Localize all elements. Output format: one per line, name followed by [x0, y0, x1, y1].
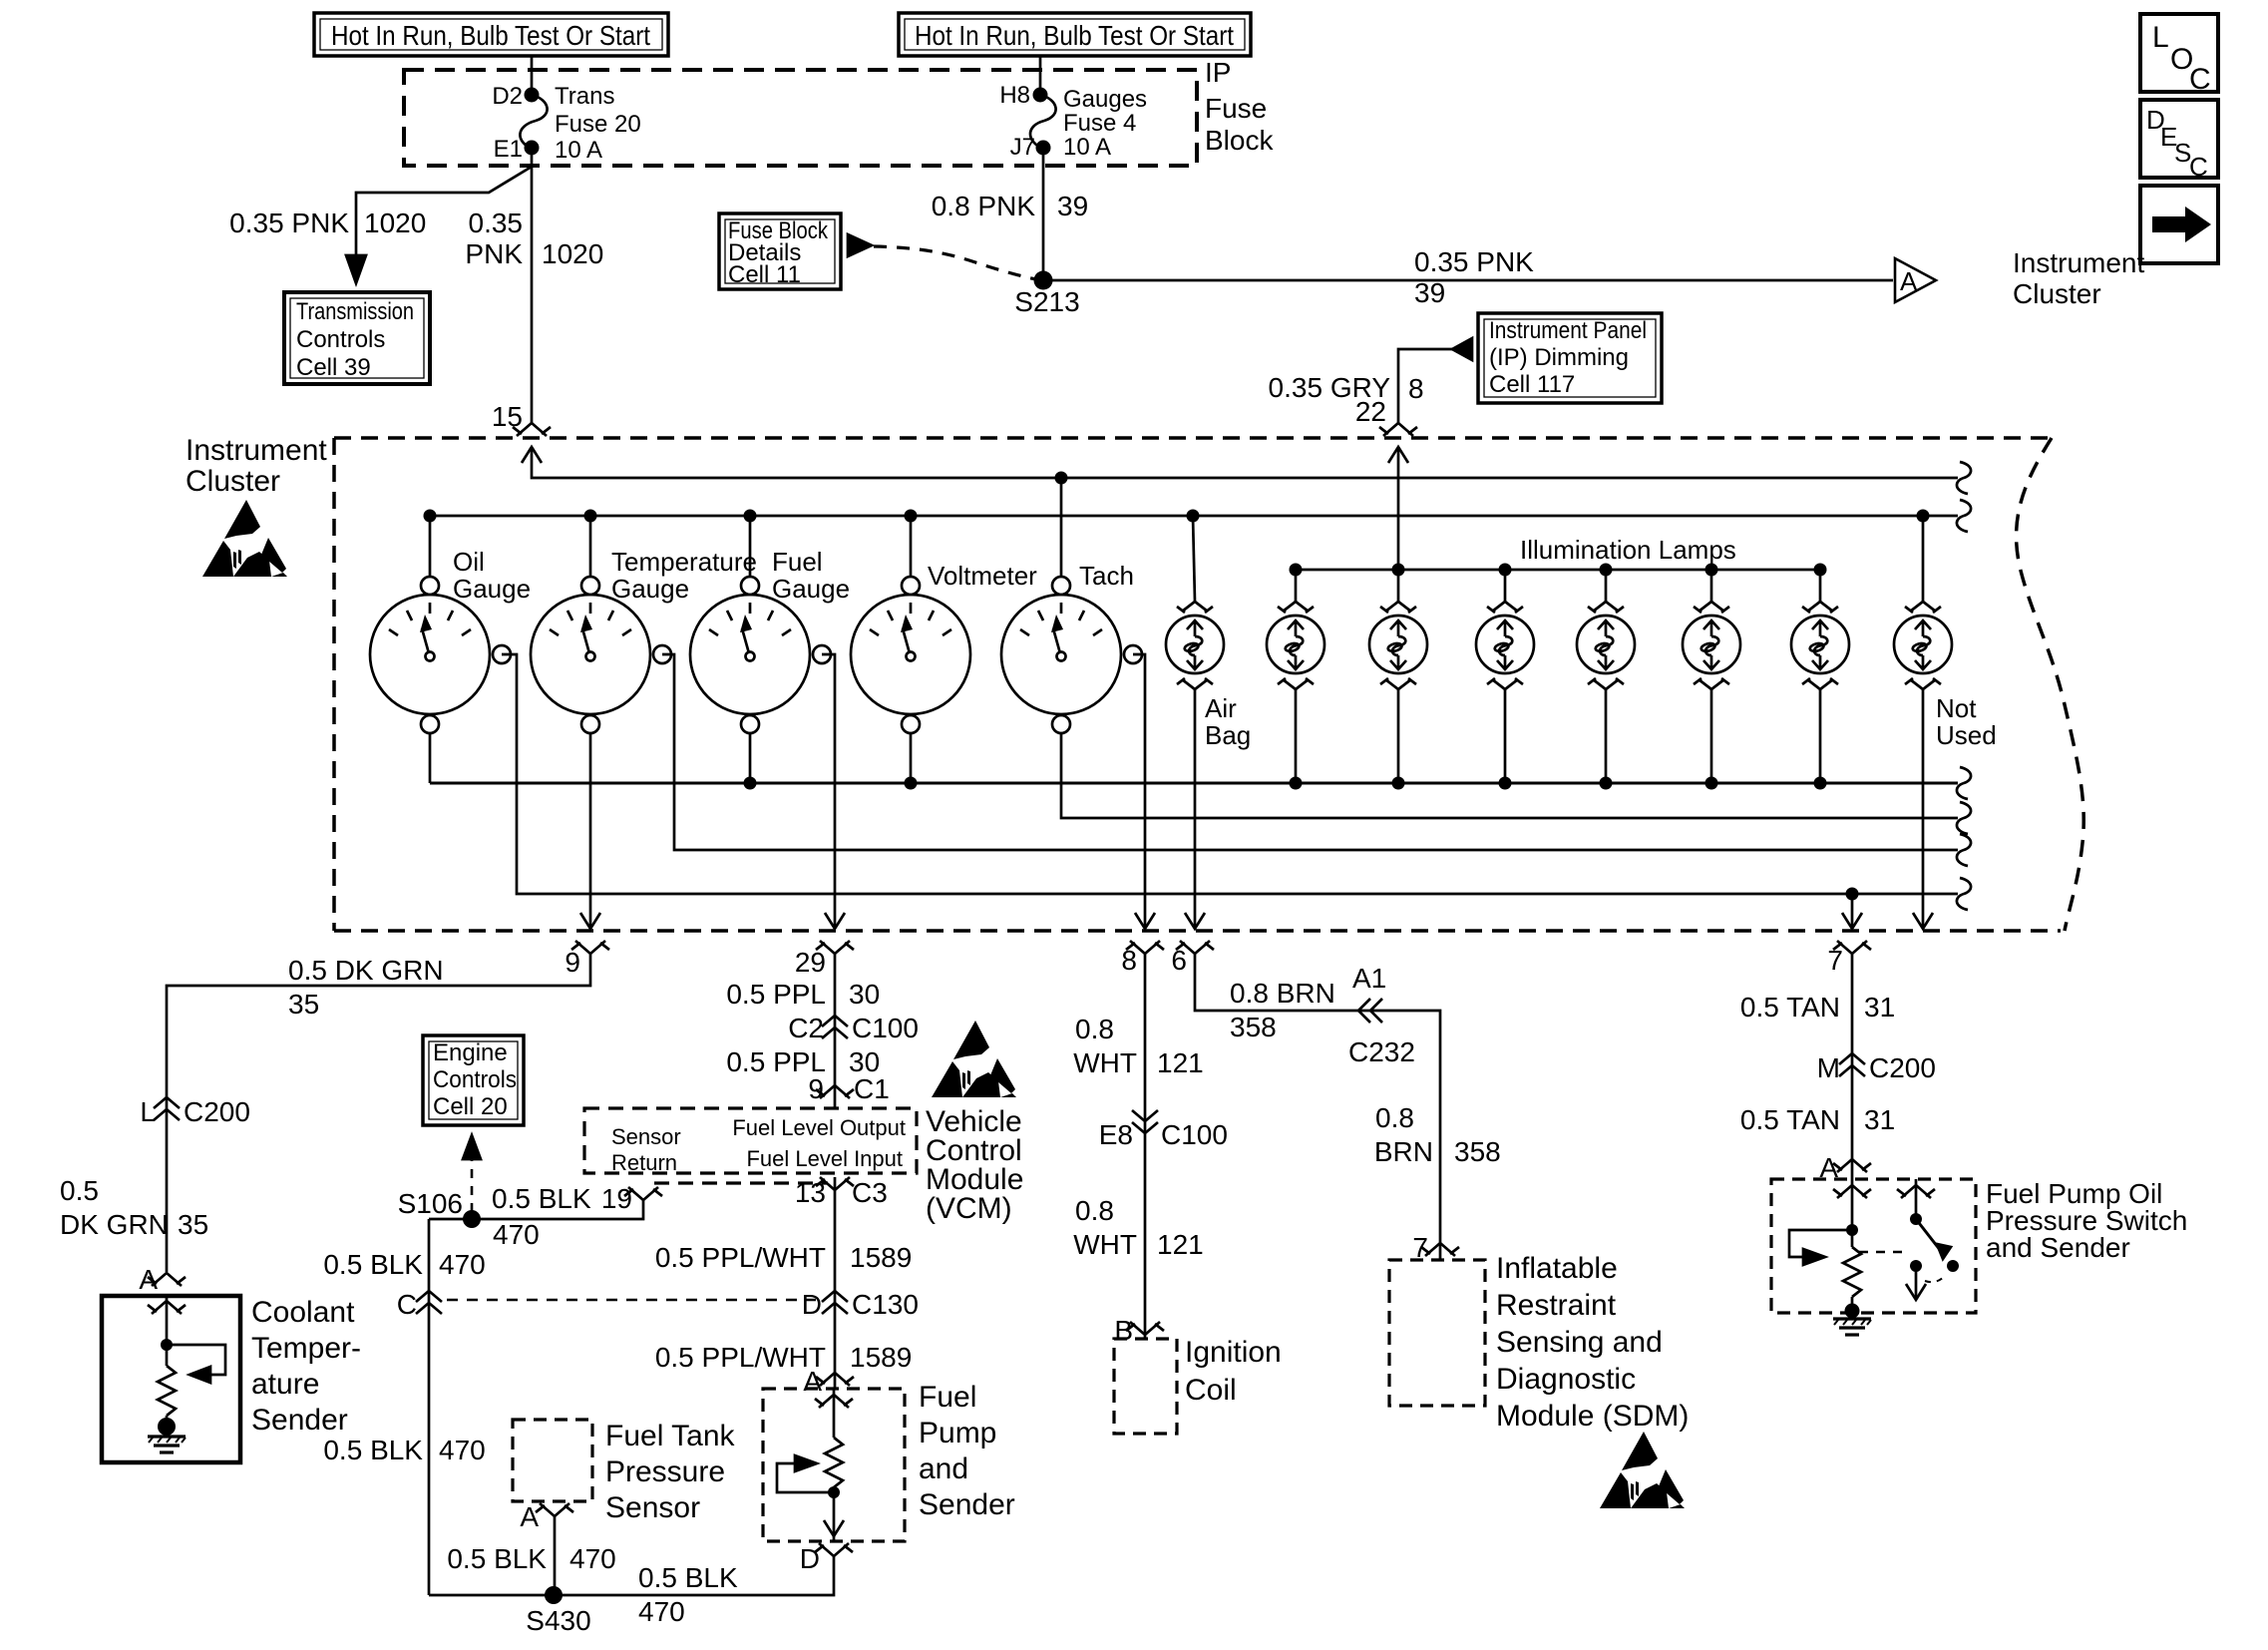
svg-text:0.5 DK GRN: 0.5 DK GRN	[288, 955, 444, 986]
svg-text:C100: C100	[1161, 1119, 1228, 1150]
svg-text:Sender: Sender	[919, 1488, 1015, 1521]
svg-text:29: 29	[795, 947, 826, 978]
arrowhead at border (9)	[580, 913, 600, 929]
wire: pin 15 feed bus (top)	[532, 447, 1958, 478]
svg-text:0.8 BRN: 0.8 BRN	[1230, 978, 1335, 1009]
wire: fuel pump D to S430	[429, 1556, 834, 1595]
svg-text:Temperature: Temperature	[611, 547, 757, 577]
label box: Hot In Run, Bulb Test Or Start (right)	[899, 13, 1251, 56]
label 0.5 PPL/WHT 1589 (lower)	[655, 1342, 912, 1373]
svg-text:Fuse 20: Fuse 20	[555, 111, 641, 138]
ESD symbol (bottom)	[1600, 1432, 1685, 1508]
svg-text:Cluster: Cluster	[186, 465, 280, 498]
svg-text:L: L	[140, 1096, 156, 1127]
svg-text:0.35: 0.35	[469, 207, 524, 238]
wire: box1 to fuse D2	[531, 56, 534, 90]
svg-text:0.5 BLK: 0.5 BLK	[323, 1249, 423, 1280]
splice S106	[398, 1188, 481, 1228]
splice S430	[526, 1586, 590, 1636]
wire: fuel gauge bottom to return bus	[749, 733, 752, 783]
oil gauge sender line (right terminal)	[502, 654, 1958, 894]
label 0.8 WHT 121 (lower)	[1073, 1195, 1203, 1260]
wire continuation squiggle (tach return)	[1957, 802, 1971, 834]
coolant sender internals	[148, 1296, 225, 1452]
label 0.5 TAN 31 (lower)	[1740, 1104, 1895, 1135]
label 0.8 BRN 358 (vertical)	[1374, 1102, 1501, 1167]
svg-text:H8: H8	[999, 82, 1030, 109]
arrowhead at border (29)	[825, 913, 845, 929]
svg-text:0.8: 0.8	[1075, 1014, 1114, 1044]
wire: box2 to fuse H8	[1039, 56, 1042, 90]
dashed pointer from S106 to Engine Controls	[471, 1157, 474, 1212]
svg-text:Transmission: Transmission	[296, 298, 414, 325]
fuse F20 (Trans Fuse 20 10 A)	[492, 83, 640, 164]
svg-text:1589: 1589	[850, 1242, 912, 1273]
svg-text:Fuse 4: Fuse 4	[1063, 110, 1136, 137]
svg-text:470: 470	[493, 1219, 540, 1250]
svg-text:39: 39	[1414, 277, 1445, 308]
wire: tank sensor to S430	[554, 1516, 557, 1595]
svg-text:Fuel: Fuel	[772, 547, 823, 577]
svg-text:PNK: PNK	[465, 238, 523, 269]
svg-text:C2: C2	[788, 1013, 824, 1043]
label 0.5 BLK 470 (lower)	[323, 1435, 485, 1465]
cluster title	[186, 434, 327, 498]
svg-text:BRN: BRN	[1374, 1136, 1433, 1167]
svg-text:Return: Return	[611, 1150, 677, 1175]
svg-text:Coolant: Coolant	[251, 1296, 355, 1329]
svg-text:Diagnostic: Diagnostic	[1496, 1363, 1636, 1396]
VCM dashed box	[584, 1108, 917, 1183]
node: voltmeter return	[905, 777, 918, 790]
node: oil gauge tap	[424, 510, 437, 523]
node: fuel gauge return	[744, 777, 757, 790]
svg-text:Tach: Tach	[1079, 561, 1134, 591]
svg-text:Fuel: Fuel	[919, 1381, 976, 1414]
svg-text:S106: S106	[398, 1188, 463, 1219]
svg-text:0.5 TAN: 0.5 TAN	[1740, 1104, 1840, 1135]
connector pin 7 (SDM)	[1412, 1232, 1459, 1263]
svg-text:31: 31	[1864, 992, 1895, 1023]
node: oil pressure branch	[1846, 888, 1859, 901]
DESC corner box	[2140, 100, 2218, 182]
label: Fuel Tank Pressure Sensor	[605, 1420, 736, 1524]
svg-text:and Sender: and Sender	[1986, 1232, 2130, 1263]
fuel pump and sender dashed box	[763, 1389, 905, 1541]
label 0.8 PNK 39	[932, 191, 1088, 221]
svg-text:Ignition: Ignition	[1185, 1336, 1282, 1369]
lamp return bus (bottom)	[430, 782, 1958, 785]
wire: fuel gauge right terminal to pin 29	[822, 654, 835, 929]
ESD symbol (VCM)	[932, 1021, 1016, 1097]
svg-text:Gauge: Gauge	[772, 574, 850, 604]
wire continuation squiggle (gauge bus)	[1957, 500, 1971, 532]
label: Vehicle Control Module (VCM)	[926, 1105, 1023, 1225]
svg-text:Sensor: Sensor	[605, 1491, 700, 1524]
connector pin 8 below cluster	[1121, 941, 1164, 976]
wire: S106 branch down to S430	[428, 1219, 431, 1595]
label: Coolant Temperature Sender	[251, 1296, 361, 1437]
svg-text:Fuel Level Input: Fuel Level Input	[746, 1146, 903, 1171]
svg-text:E8: E8	[1099, 1119, 1133, 1150]
svg-text:Block: Block	[1205, 125, 1274, 156]
connector pin A (fuel pump)	[803, 1366, 854, 1397]
label: Ignition Coil	[1185, 1336, 1282, 1407]
node: temp gauge tap	[584, 510, 597, 523]
IP Fuse Block dashed box	[404, 57, 1274, 166]
svg-text:Engine: Engine	[433, 1039, 508, 1066]
svg-text:C130: C130	[852, 1289, 919, 1320]
svg-text:470: 470	[569, 1543, 616, 1574]
svg-text:Temper-: Temper-	[251, 1332, 361, 1365]
svg-text:Air: Air	[1205, 693, 1237, 723]
label 0.5 PPL 30 (lower)	[726, 1046, 880, 1077]
svg-text:ature: ature	[251, 1368, 319, 1401]
svg-text:C1: C1	[854, 1073, 890, 1104]
dashed pointer line to S213	[874, 246, 1041, 280]
label 0.5 DK GRN 35	[288, 955, 444, 1020]
svg-text:358: 358	[1454, 1136, 1501, 1167]
svg-text:D2: D2	[492, 83, 523, 110]
wire continuation squiggle (return bus)	[1957, 767, 1971, 799]
svg-text:121: 121	[1157, 1047, 1204, 1078]
label 0.5 DK GRN 35 (lower)	[60, 1175, 208, 1240]
gauge supply bus	[430, 515, 1958, 518]
svg-text:Instrument: Instrument	[186, 434, 327, 467]
svg-text:C3: C3	[852, 1177, 888, 1208]
svg-text:Restraint: Restraint	[1496, 1289, 1617, 1322]
svg-text:0.5 PPL/WHT: 0.5 PPL/WHT	[655, 1242, 826, 1273]
svg-text:C: C	[397, 1289, 417, 1320]
wire: E1 down to cluster pin 15 (0.35 PNK 1020)	[531, 154, 534, 424]
svg-text:Gauge: Gauge	[453, 574, 531, 604]
label 0.35 PNK 1020 (vertical wire)	[465, 207, 603, 269]
svg-text:7: 7	[1827, 945, 1843, 976]
wire: bus to oil gauge	[429, 516, 432, 577]
label: Inflatable Restraint Sensing and Diagnostic Module (SDM)	[1496, 1252, 1689, 1433]
fuel gauge	[690, 547, 850, 733]
fuel pump oil pressure switch and sender dashed box	[1771, 1179, 1976, 1313]
wire: pin 8 to ignition coil (0.8 WHT 121)	[1144, 954, 1147, 1339]
svg-text:0.35 PNK: 0.35 PNK	[229, 207, 349, 238]
svg-text:WHT: WHT	[1073, 1229, 1137, 1260]
label box: Fuse Block Details Cell 11	[719, 213, 841, 289]
svg-text:0.8 PNK: 0.8 PNK	[932, 191, 1036, 221]
node: lamp bus junctions	[1290, 564, 1827, 577]
label 0.5 BLK 470 (upper)	[323, 1249, 485, 1280]
svg-text:S430: S430	[526, 1605, 590, 1636]
svg-text:E1: E1	[494, 136, 523, 163]
svg-text:6: 6	[1171, 945, 1187, 976]
svg-text:C232: C232	[1348, 1036, 1415, 1067]
tach return line	[1061, 733, 1958, 818]
svg-text:(IP) Dimming: (IP) Dimming	[1489, 344, 1629, 371]
svg-text:0.5 PPL: 0.5 PPL	[726, 979, 826, 1010]
label 0.8 WHT 121	[1073, 1014, 1203, 1078]
oil pressure switch internals	[1897, 1179, 1959, 1300]
illumination lamp 4	[1577, 570, 1635, 783]
svg-text:0.5: 0.5	[60, 1175, 99, 1206]
illumination lamp bus	[1296, 569, 1820, 572]
node: not used lamp tap	[1917, 510, 1930, 523]
fuel pump sender internals	[777, 1389, 853, 1541]
wire: pin 29 to VCM (0.5 PPL 30)	[834, 954, 837, 1108]
svg-text:C200: C200	[1869, 1052, 1936, 1083]
svg-text:D: D	[802, 1289, 822, 1320]
label: Fuel Pump and Sender	[919, 1381, 1015, 1521]
temperature gauge	[531, 547, 757, 733]
connector pin 29 below cluster	[795, 941, 854, 978]
svg-text:9: 9	[808, 1073, 824, 1104]
connector E8 C100	[1099, 1110, 1228, 1150]
connector pin 15 into cluster	[492, 401, 551, 463]
voltmeter	[851, 561, 1037, 733]
svg-text:0.5 BLK: 0.5 BLK	[638, 1562, 738, 1593]
wire: bus to voltmeter	[910, 516, 913, 577]
wire: S213 to instrument cluster triangle A (0.35 PNK 39)	[1043, 279, 1893, 282]
svg-text:(VCM): (VCM)	[926, 1192, 1012, 1225]
wire: IP dimming to cluster pin 22 (0.35 GRY 8)	[1398, 349, 1452, 424]
svg-text:A: A	[139, 1264, 158, 1295]
svg-text:0.8: 0.8	[1075, 1195, 1114, 1226]
connector pin A (fuel tank sensor)	[520, 1501, 573, 1532]
oil pressure sender internals	[1789, 1179, 1871, 1335]
svg-text:10 A: 10 A	[1063, 134, 1111, 161]
svg-text:C: C	[2189, 152, 2208, 182]
wire: pin 13 to fuel pump (0.5 PPL/WHT 1589)	[834, 1177, 837, 1389]
svg-text:Voltmeter: Voltmeter	[928, 561, 1037, 591]
label: Fuel Pump Oil Pressure Switch and Sender	[1986, 1178, 2187, 1263]
node: lamp returns	[1290, 777, 1827, 790]
svg-text:IP: IP	[1205, 57, 1231, 88]
svg-text:Oil: Oil	[453, 547, 485, 577]
label 0.5 PPL/WHT 1589	[655, 1242, 912, 1273]
wire: temp gauge bottom to pin 9	[589, 733, 592, 929]
not used lamp	[1894, 516, 1997, 750]
wire: tach right terminal to pin 8	[1133, 654, 1145, 929]
connector C2 C100	[788, 1013, 919, 1043]
illumination lamp 5	[1683, 570, 1740, 783]
svg-text:Hot In Run, Bulb Test Or Start: Hot In Run, Bulb Test Or Start	[331, 20, 650, 51]
wire: branch from E1 to transmission controls arrow	[356, 167, 532, 257]
arrow corner box	[2140, 186, 2218, 263]
wire: bus to air bag lamp	[1193, 516, 1195, 602]
oil gauge	[370, 547, 531, 733]
svg-text:Controls: Controls	[433, 1066, 517, 1093]
arrowhead at border (6)	[1185, 913, 1205, 929]
label 0.5 TAN 31	[1740, 992, 1895, 1023]
svg-text:C200: C200	[184, 1096, 250, 1127]
connector pin 7 below cluster	[1827, 941, 1871, 976]
label 0.35 PNK 39	[1414, 246, 1534, 308]
svg-text:Sensor: Sensor	[611, 1124, 681, 1149]
wire: not used lamp to border	[1922, 689, 1925, 929]
SDM dashed box	[1389, 1260, 1485, 1406]
svg-text:Cell 117: Cell 117	[1489, 371, 1575, 398]
node: voltmeter tap	[905, 510, 918, 523]
svg-text:C: C	[2189, 63, 2211, 96]
coolant temperature sender box	[102, 1296, 240, 1462]
svg-text:19: 19	[601, 1183, 632, 1214]
wire: bus to fuel gauge	[749, 516, 752, 577]
tach	[1001, 561, 1142, 733]
arrowhead down to Transmission Controls	[346, 255, 366, 283]
svg-text:A: A	[1900, 266, 1918, 296]
wire: feed to tach	[1060, 478, 1063, 577]
arrowhead up to Engine Controls	[463, 1135, 481, 1159]
node: air bag lamp tap	[1187, 510, 1200, 523]
svg-text:Trans: Trans	[555, 83, 614, 110]
LOC corner box	[2140, 14, 2218, 96]
svg-text:Pump: Pump	[919, 1417, 996, 1449]
svg-text:358: 358	[1230, 1012, 1277, 1042]
svg-text:Cell 39: Cell 39	[296, 354, 371, 381]
arrowhead at border (8)	[1135, 913, 1155, 929]
connector A1 C232	[1348, 963, 1415, 1067]
wire: pin 22 down to illumination lamp bus	[1397, 447, 1400, 570]
label box: Instrument Panel (IP) Dimming Cell 117	[1478, 313, 1662, 403]
svg-text:B: B	[1114, 1315, 1133, 1346]
wire continuation squiggle (oil right line)	[1957, 878, 1971, 910]
wire continuation squiggle (temp right line)	[1957, 834, 1971, 866]
svg-text:Bag: Bag	[1205, 720, 1251, 750]
fuse F4 (Gauges Fuse 4 10 A)	[999, 82, 1147, 161]
svg-text:Sender: Sender	[251, 1404, 348, 1437]
svg-text:A1: A1	[1352, 963, 1386, 994]
svg-text:Illumination Lamps: Illumination Lamps	[1520, 535, 1736, 565]
wire: S106 to VCM pin 19 (0.5 BLK 470)	[429, 1200, 643, 1219]
svg-text:0.35 PNK: 0.35 PNK	[1414, 246, 1534, 277]
svg-text:A: A	[803, 1366, 822, 1397]
wire: bus to temp gauge	[589, 516, 592, 577]
connector pin A (coolant sender)	[139, 1264, 186, 1295]
connector L C200	[140, 1096, 250, 1127]
svg-text:DK GRN: DK GRN	[60, 1209, 169, 1240]
connector D C130	[802, 1289, 919, 1320]
ESD symbol (cluster)	[202, 500, 287, 577]
svg-text:Cell 11: Cell 11	[728, 261, 801, 288]
svg-text:470: 470	[439, 1249, 486, 1280]
node: fuel gauge tap	[744, 510, 757, 523]
svg-text:Cluster: Cluster	[2013, 278, 2101, 309]
temp gauge sender line (right terminal)	[662, 654, 1958, 850]
svg-text:0.5 BLK: 0.5 BLK	[323, 1435, 423, 1465]
svg-text:Controls: Controls	[296, 326, 385, 353]
illumination lamp 1	[1267, 570, 1324, 783]
svg-text:Cell 20: Cell 20	[433, 1093, 508, 1120]
svg-text:470: 470	[638, 1596, 685, 1627]
arrowhead at border (not used)	[1913, 913, 1933, 929]
wire: air bag lamp to pin 6	[1194, 689, 1197, 929]
label box: Engine Controls Cell 20	[423, 1035, 524, 1125]
connector pin A (oil pressure sender)	[1819, 1152, 1871, 1183]
wire: voltmeter bottom to return bus	[910, 733, 913, 783]
svg-text:13: 13	[795, 1177, 826, 1208]
arrowhead at border (7)	[1842, 913, 1862, 929]
svg-text:Gauge: Gauge	[611, 574, 689, 604]
svg-text:and: and	[919, 1452, 968, 1485]
wire: oil gauge bottom to return bus	[429, 733, 432, 783]
wire: pin 9 to coolant temp sender (0.5 DK GRN 35)	[167, 954, 590, 1272]
label 0.8 BRN 358	[1230, 978, 1335, 1042]
svg-text:Fuse: Fuse	[1205, 93, 1267, 124]
svg-text:Fuel Tank: Fuel Tank	[605, 1420, 736, 1452]
air bag lamp	[1166, 602, 1251, 750]
svg-text:39: 39	[1057, 191, 1088, 221]
connector pin 6 below cluster	[1171, 941, 1214, 976]
label box: Hot In Run, Bulb Test Or Start (left)	[314, 13, 668, 56]
svg-text:121: 121	[1157, 1229, 1204, 1260]
label 0.5 BLK 470 (S430 run)	[638, 1562, 738, 1627]
arrowhead from IP Dimming box	[1452, 338, 1472, 360]
svg-text:A: A	[520, 1501, 539, 1532]
svg-text:35: 35	[178, 1209, 208, 1240]
connector pin 9 below cluster	[565, 941, 609, 978]
illumination lamp 3	[1476, 570, 1534, 783]
wire: pin 6 to SDM (0.8 BRN 358)	[1195, 954, 1440, 1260]
svg-text:Used: Used	[1936, 720, 1997, 750]
label 0.5 PPL 30	[726, 979, 880, 1010]
svg-text:8: 8	[1408, 373, 1424, 404]
fuel tank pressure sensor dashed box	[513, 1420, 592, 1501]
instrument cluster dashed border	[334, 438, 2083, 931]
wire continuation squiggle (15 bus)	[1957, 462, 1971, 494]
svg-text:0.8: 0.8	[1375, 1102, 1414, 1133]
ignition coil dashed box	[1114, 1339, 1177, 1434]
svg-text:Hot In Run, Bulb Test Or Start: Hot In Run, Bulb Test Or Start	[915, 20, 1234, 51]
connector M C200	[1817, 1052, 1936, 1083]
svg-text:0.5 BLK: 0.5 BLK	[447, 1543, 547, 1574]
switch mechanical dashed link	[1859, 1251, 1907, 1254]
svg-text:35: 35	[288, 989, 319, 1020]
svg-text:470: 470	[439, 1435, 486, 1465]
svg-text:1589: 1589	[850, 1342, 912, 1373]
illumination lamp 6	[1791, 570, 1849, 783]
svg-text:9: 9	[565, 947, 580, 978]
svg-text:31: 31	[1864, 1104, 1895, 1135]
svg-text:Inflatable: Inflatable	[1496, 1252, 1618, 1285]
C130 inline connector dashed line	[447, 1299, 816, 1301]
connector pin 22 into cluster	[1355, 396, 1417, 463]
svg-text:Gauges: Gauges	[1063, 86, 1147, 113]
svg-text:1020: 1020	[542, 238, 603, 269]
connector pin 13 C3	[795, 1177, 888, 1208]
svg-text:30: 30	[849, 979, 880, 1010]
svg-text:Coil: Coil	[1185, 1374, 1237, 1407]
svg-text:Instrument Panel: Instrument Panel	[1489, 317, 1647, 344]
off-page triangle A to Instrument Cluster	[1895, 247, 2144, 309]
connector C (C130)	[397, 1289, 442, 1320]
svg-text:Fuel Level Output: Fuel Level Output	[732, 1115, 906, 1140]
svg-text:M: M	[1817, 1052, 1840, 1083]
illumination lamp 2	[1369, 570, 1427, 783]
svg-text:7: 7	[1412, 1232, 1428, 1263]
label 0.5 BLK 470 (tank sensor)	[447, 1543, 615, 1574]
svg-text:Sensing and: Sensing and	[1496, 1326, 1663, 1359]
label 0.5 BLK 470 (S106 run)	[492, 1183, 591, 1250]
svg-text:S213: S213	[1014, 286, 1079, 317]
label box: Transmission Controls Cell 39	[284, 292, 430, 384]
svg-text:8: 8	[1121, 945, 1137, 976]
connector pin B (ignition coil)	[1114, 1315, 1164, 1346]
svg-text:C100: C100	[852, 1013, 919, 1043]
svg-text:0.5 BLK: 0.5 BLK	[492, 1183, 591, 1214]
svg-text:WHT: WHT	[1073, 1047, 1137, 1078]
svg-text:15: 15	[492, 401, 523, 432]
wire: pin 7 to oil pressure sender (0.5 TAN 31)	[1851, 954, 1854, 1179]
svg-text:D: D	[800, 1543, 820, 1574]
svg-text:Pressure: Pressure	[605, 1455, 725, 1488]
